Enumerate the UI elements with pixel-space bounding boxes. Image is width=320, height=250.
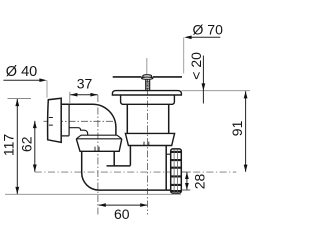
centerline: bottom pipe axis [35,171,237,173]
knurl ribs [174,149,177,192]
dimension 60 [99,204,148,206]
outlet pipe bottom with steps [69,128,87,136]
screw head [143,75,152,78]
dimension 37 [70,94,98,96]
dimension 117 [16,99,18,194]
elbow union nut top band [76,135,122,139]
union nut on body [125,133,174,145]
down pipe right wall and inner corner to cup [107,151,131,166]
svg-text:117: 117 [0,134,16,157]
outlet collar [61,104,69,136]
dimension O70 leader [189,36,220,38]
svg-text:37: 37 [77,75,93,91]
dimension O40 leader [3,79,43,81]
knurl bands [171,152,181,191]
svg-text:Ø 70: Ø 70 [193,22,224,38]
svg-text:Ø 40: Ø 40 [6,64,37,80]
svg-text:28: 28 [192,174,208,190]
dimension 62 [34,121,36,172]
screw threads [146,81,150,89]
shower tray line right segment [153,76,182,78]
flange brim [112,91,181,95]
body nut grip ticks [144,142,149,146]
outlet nut (D40) [48,98,62,142]
dimension 28 [186,172,188,190]
knurl collar line [166,153,171,155]
svg-text:< 20: < 20 [188,52,204,80]
centerline: screw stub above head [146,58,148,74]
outlet pipe top and elbow outer curve [61,104,116,135]
dimension 91 line [245,91,247,172]
svg-text:60: 60 [114,206,130,222]
svg-text:91: 91 [229,120,245,136]
cup walls [130,146,166,191]
outlet nut thread ticks [49,118,53,126]
elbow nut grip ticks [95,147,99,152]
dimension 28 top extension [182,171,191,173]
elbow union nut tapered body [76,139,122,152]
knurled nut [171,149,182,193]
centerline: drain body axis [147,76,149,215]
down pipe left wall and bottom elbow curve [82,151,99,190]
body cylinder walls [127,104,168,133]
bottom reference line [5,193,181,195]
dimension <20 reference line [182,90,251,92]
centerline: left pipe axis [97,95,99,216]
dimension <20 line [202,56,204,104]
centerline: outlet axis [44,120,116,122]
flange neck tier [121,95,175,104]
bottom edge of pipe and cup [99,189,171,191]
shower tray line left segment [113,76,142,78]
svg-text:62: 62 [19,136,35,152]
screw shaft [146,79,150,90]
